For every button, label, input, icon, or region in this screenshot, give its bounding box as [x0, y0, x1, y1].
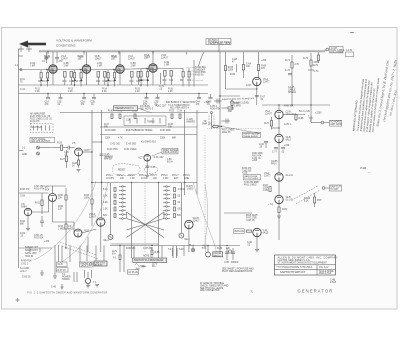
wire right rails	[205, 135, 252, 250]
shielded probe TP	[204, 112, 215, 129]
transformer T2 windings	[168, 246, 184, 258]
svg-text:POS 1: POS 1	[106, 175, 113, 177]
node test point top right	[346, 32, 355, 57]
svg-text:12AU7: 12AU7	[61, 57, 69, 60]
capacitor C49 near caption	[51, 284, 64, 289]
svg-text:R-51 470K: R-51 470K	[34, 188, 45, 190]
svg-text:C1A: C1A	[126, 119, 131, 122]
svg-text:SHIELD: SHIELD	[288, 92, 297, 94]
tube V1-C 12AU7	[111, 52, 136, 74]
ground symbol left	[40, 270, 44, 275]
wire V7 circuit	[19, 186, 53, 222]
coupling pair right of tube at 86.5	[74, 72, 108, 86]
svg-text:12AT7: 12AT7	[263, 80, 270, 83]
tube V11 output	[253, 228, 269, 236]
capacitor C-15	[100, 154, 114, 158]
svg-text:SWITCH S1 FROM REAR: SWITCH S1 FROM REAR	[134, 259, 164, 262]
svg-text:ADJUST: ADJUST	[95, 264, 104, 267]
wire branch right of V3A	[283, 111, 310, 121]
svg-text:TO CRT GRID: TO CRT GRID	[244, 178, 258, 180]
wire dotted interconnect	[208, 125, 263, 134]
resistor R-54	[58, 224, 67, 230]
svg-text:FIG. 1-2 SAWTOOTH SWEEP AND: FIG. 1-2 SAWTOOTH SWEEP AND WAVEFORM GEN…	[28, 291, 108, 294]
wire power entry rails	[112, 245, 124, 272]
label dwg number	[330, 280, 337, 285]
svg-text:12AU7: 12AU7	[265, 112, 273, 115]
capacitor C1 hang left	[42, 52, 49, 63]
label cluster V7 area	[20, 186, 93, 237]
capacitor bank C2A/C2B	[81, 94, 97, 104]
svg-text:1 KC: 1 KC	[130, 178, 135, 180]
resistor R-27	[60, 150, 68, 168]
label generator	[298, 289, 334, 294]
svg-text:8.2K: 8.2K	[304, 200, 309, 202]
capacitor bank C3A/C3B	[143, 94, 160, 104]
svg-text:AC PLUG: AC PLUG	[128, 271, 138, 274]
svg-text:R-61 1 MEG: R-61 1 MEG	[244, 184, 257, 186]
resistor R-76	[264, 117, 279, 130]
resistor R63	[224, 52, 233, 89]
svg-text:330K: 330K	[160, 138, 166, 140]
svg-text:22K: 22K	[58, 208, 63, 210]
tube V8 input cf	[21, 204, 32, 216]
svg-text:see note on margin: see note on margin	[187, 70, 205, 73]
svg-text:68K: 68K	[172, 138, 177, 140]
svg-text:10 CPS: 10 CPS	[106, 178, 114, 180]
svg-text:X1 GANG ADJ: X1 GANG ADJ	[141, 141, 156, 144]
svg-text:POS 3: POS 3	[128, 175, 135, 177]
wire cathode drop	[119, 73, 121, 85]
svg-text:1 MF: 1 MF	[164, 64, 170, 66]
label box test signal	[30, 138, 55, 144]
component cluster power filter	[151, 247, 160, 268]
svg-text:SW S-2: SW S-2	[214, 255, 222, 257]
svg-text:TRANS: TRANS	[62, 278, 70, 281]
resistor pair at V1-A	[39, 70, 50, 87]
svg-text:C-49: C-49	[51, 287, 57, 289]
svg-text:C-66: C-66	[246, 85, 252, 87]
label multivibrator row	[105, 129, 177, 140]
wire top distribution line	[60, 113, 208, 135]
svg-text:1.5K: 1.5K	[103, 209, 108, 211]
note handwritten adjust	[222, 97, 255, 105]
svg-text:C-89 .1: C-89 .1	[284, 124, 292, 126]
wire rails center-left	[82, 110, 102, 226]
svg-text:2.2K: 2.2K	[168, 91, 173, 93]
wire lower-left short bus	[19, 248, 53, 252]
resistor R-73	[303, 58, 319, 73]
neon bulb NE-2	[179, 233, 190, 241]
tube V1-D 12AU7	[144, 52, 169, 73]
svg-text:12AT7: 12AT7	[264, 174, 271, 177]
svg-text:C-74: C-74	[314, 71, 320, 73]
wire left rail	[19, 49, 209, 268]
svg-text:POT: POT	[317, 200, 322, 202]
svg-text:R-83: R-83	[282, 209, 288, 211]
svg-text:MID BAND R.F. SELECTION: MID BAND R.F. SELECTION	[166, 101, 195, 104]
capacitor C-64	[242, 52, 251, 78]
filter caps C-95	[224, 248, 239, 264]
svg-text:C-34: C-34	[177, 111, 183, 113]
tube V2-A sync amp	[246, 77, 270, 87]
pilot lamp	[189, 245, 195, 252]
label box parts table (dashed)	[31, 124, 54, 133]
svg-text:NE-1: NE-1	[104, 240, 110, 242]
capacitor bank C1A/C1B	[45, 94, 63, 104]
tube V4-B 12AT7	[268, 195, 293, 206]
svg-text:R-35 220K: R-35 220K	[105, 130, 116, 132]
node input terminals	[18, 46, 32, 56]
svg-text:2.2K: 2.2K	[135, 91, 140, 93]
capacitor cluster on center rail upper	[204, 99, 233, 114]
label T-1 power	[62, 272, 77, 282]
svg-text:FOLLOWER: FOLLOWER	[331, 52, 344, 54]
svg-text:1K: 1K	[72, 165, 75, 167]
svg-text:1 MFD: 1 MFD	[234, 105, 241, 107]
svg-text:THERMISTOR T-3: THERMISTOR T-3	[115, 108, 135, 110]
svg-text:R-86 68K: R-86 68K	[126, 248, 136, 250]
label density top band	[30, 62, 210, 106]
jack J1 terminal	[19, 146, 51, 156]
svg-text:R-73: R-73	[303, 58, 309, 60]
svg-text:R-69: R-69	[230, 74, 236, 76]
label box thermometer	[114, 105, 168, 113]
coupling pair right of tube at 120	[107, 72, 141, 86]
waveform sketches	[135, 264, 146, 271]
svg-text:NE-2: NE-2	[185, 239, 191, 241]
svg-text:CONDITIONS: CONDITIONS	[56, 44, 75, 48]
svg-text:B-2-A: B-2-A	[167, 160, 173, 163]
svg-text:+225: +225	[242, 173, 248, 175]
svg-text:DWG 170-B: DWG 170-B	[319, 273, 332, 275]
resistor cluster on center rail lower	[202, 119, 235, 134]
svg-text:220K: 220K	[105, 138, 111, 140]
svg-text:← TRIG IN: ← TRIG IN	[22, 256, 33, 258]
svg-text:NOTE 1: NOTE 1	[143, 256, 152, 258]
svg-text:C-42 .001: C-42 .001	[110, 144, 121, 146]
svg-text:1 MF: 1 MF	[64, 65, 70, 67]
svg-text:LINE: LINE	[184, 178, 190, 180]
tube V7 6C4	[45, 187, 64, 202]
wire V5 cathode	[72, 156, 81, 172]
label cluster AC input	[20, 268, 31, 279]
switch S1-A left wafer contacts	[119, 186, 126, 220]
svg-text:1 MEG: 1 MEG	[187, 188, 194, 190]
svg-text:R-86: R-86	[299, 118, 305, 120]
label box switch viewed from rear	[133, 258, 167, 262]
label box freq range selector	[152, 148, 178, 156]
label cluster sync takeoff	[195, 67, 206, 77]
svg-text:POS 5: POS 5	[150, 175, 157, 177]
svg-text:6.3V: 6.3V	[179, 249, 184, 251]
resistor stack left column	[103, 188, 116, 218]
svg-text:C-43 .005: C-43 .005	[126, 144, 137, 146]
svg-text:GENERATOR: GENERATOR	[298, 289, 334, 294]
label cluster c2a5 right	[288, 86, 297, 94]
wire crossover X	[127, 212, 165, 238]
svg-text:15 EB: 15 EB	[360, 168, 367, 170]
label cluster mid right	[252, 153, 263, 162]
tube V9 clamp	[68, 226, 90, 237]
fuse F1	[113, 255, 121, 260]
wire V3 column	[278, 105, 279, 240]
note modified annotation typed	[352, 77, 381, 132]
svg-text:R2 1K: R2 1K	[39, 81, 46, 83]
svg-text:B-1 C 2.2K: B-1 C 2.2K	[299, 111, 311, 113]
wire curve from bus	[199, 52, 205, 66]
label box horiz amp feed	[324, 120, 342, 126]
svg-text:FIG. 6-12: FIG. 6-12	[319, 267, 329, 269]
svg-text:R-16 now 3.3K: R-16 now 3.3K	[187, 74, 202, 76]
wire switch frame	[111, 183, 182, 258]
svg-text:1 MC: 1 MC	[163, 178, 169, 180]
tube V10-B right multivib	[185, 218, 200, 229]
label right column extras	[271, 106, 294, 166]
svg-text:C-95: C-95	[224, 262, 230, 264]
svg-text:12AT7: 12AT7	[84, 149, 91, 152]
svg-text:22K: 22K	[58, 197, 63, 199]
tube V1-B 12AU7	[78, 52, 103, 74]
svg-text:SAWTOOTH SWP CKT: SAWTOOTH SWP CKT	[280, 271, 306, 274]
svg-text:POS 2: POS 2	[117, 175, 124, 177]
label box oscillator caps	[124, 116, 166, 126]
svg-text:S-3 GND: S-3 GND	[20, 268, 30, 270]
wire V11 below	[247, 237, 259, 252]
node +225 feed	[309, 113, 324, 124]
wire switch section top	[91, 182, 197, 183]
label cluster bottom-left rows	[21, 247, 39, 266]
wire top coax bus	[39, 50, 325, 58]
wire V6 below	[145, 161, 156, 178]
phantom dashed bubble right	[144, 166, 157, 173]
phantom dashed bubble left	[113, 164, 140, 176]
svg-text:12AU7: 12AU7	[128, 57, 136, 60]
svg-text:2.2K: 2.2K	[103, 202, 108, 204]
svg-text:33K: 33K	[168, 126, 173, 128]
svg-text:TV OSCILLOSCOPE TYPE 250-A: TV OSCILLOSCOPE TYPE 250-A	[278, 266, 313, 269]
coupling pair right of tube at 153	[140, 71, 174, 86]
svg-text:POS 8: POS 8	[183, 175, 190, 177]
svg-text:1 MEG: 1 MEG	[58, 228, 65, 230]
wire cathode drop	[86, 73, 88, 85]
label sheet mark	[251, 292, 254, 294]
tube V3-B 6AL5	[275, 134, 292, 142]
capacitor bank C4A/C4B	[196, 94, 213, 104]
svg-text:2.2K: 2.2K	[68, 91, 73, 93]
tube V1-A 12AU7	[44, 52, 69, 74]
svg-text:170-B: 170-B	[330, 282, 337, 284]
label switch header rows	[106, 175, 190, 180]
svg-text:+150: +150	[44, 241, 50, 243]
svg-text:C-72: C-72	[285, 70, 291, 72]
capacitor C2 hang left	[55, 52, 63, 63]
svg-text:T-1 A TUNED 455 KC: T-1 A TUNED 455 KC	[168, 104, 190, 107]
label box S1-B	[57, 262, 68, 267]
capacitor C-26	[64, 146, 75, 157]
svg-text:POS 6: POS 6	[161, 175, 168, 177]
annotation arrow (voltage/waveform pointer)	[19, 41, 46, 48]
wire dashed pair to output	[294, 186, 320, 204]
svg-text:47K: 47K	[261, 68, 266, 70]
svg-text:C-59: C-59	[20, 196, 26, 198]
wire V8 below	[20, 216, 30, 231]
svg-text:HMMFD: HMMFD	[187, 121, 196, 123]
svg-text:VOLTAGE & WAVEFORM: VOLTAGE & WAVEFORM	[56, 39, 92, 43]
svg-text:ST. INSTRUMENT DIVISION TEST: ST. INSTRUMENT DIVISION TEST EQUIPMENT	[278, 263, 328, 265]
svg-text:S1-B: S1-B	[58, 264, 64, 266]
svg-text:+ C4: + C4	[268, 204, 274, 206]
resistor hang row on 112 line	[108, 111, 183, 119]
svg-text:GL-2-A: GL-2-A	[286, 174, 294, 177]
wire coax termination	[313, 48, 329, 67]
svg-text:2.2K: 2.2K	[35, 91, 40, 93]
label midband rows	[166, 101, 195, 110]
svg-text:JACK J-4: JACK J-4	[81, 265, 91, 268]
svg-text:C-41 .002: C-41 .002	[154, 157, 165, 159]
label cluster lower-left values	[20, 189, 50, 243]
ground near caption	[95, 285, 99, 287]
svg-text:GND: GND	[22, 154, 27, 156]
svg-text:C-40: C-40	[151, 167, 157, 169]
label box R27	[57, 268, 69, 272]
label AF amplifier	[30, 113, 53, 124]
svg-text:R-51: R-51	[35, 203, 41, 205]
svg-text:ARE CONNECTED: ARE CONNECTED	[200, 289, 220, 292]
svg-text:22K: 22K	[226, 248, 231, 250]
resistor pair at V1-C	[106, 70, 117, 87]
svg-text:RESET: RESET	[118, 170, 126, 172]
label under switch columns	[126, 248, 153, 250]
svg-text:6AB4: 6AB4	[21, 205, 27, 208]
neon bulb NE-1	[104, 235, 113, 242]
wire mid rails right	[185, 110, 197, 195]
svg-text:R-44 470K: R-44 470K	[107, 149, 118, 151]
svg-text:ALLEN B. DU MONT LABS. INC. C: ALLEN B. DU MONT LABS. INC. COMPANY	[278, 255, 339, 259]
svg-text:68K: 68K	[104, 126, 109, 128]
svg-text:FRONT PANEL JACK: FRONT PANEL JACK	[209, 43, 231, 46]
svg-text:600∼: 600∼	[142, 266, 147, 268]
svg-text:AMP GRID: AMP GRID	[330, 123, 341, 126]
svg-text:5.1K: 5.1K	[103, 189, 108, 191]
svg-text:EXT: EXT	[174, 178, 179, 180]
label cluster right of V6	[154, 157, 174, 163]
svg-text:← GATE +50V: ← GATE +50V	[22, 252, 37, 255]
svg-text:SWP CAL: SWP CAL	[202, 123, 213, 126]
svg-text:R-25: R-25	[57, 143, 63, 145]
resistor pair right of V1-D	[180, 60, 194, 87]
svg-text:C-93 .01: C-93 .01	[22, 277, 31, 279]
svg-text:+225: +225	[252, 160, 258, 162]
note pencil faint midtop	[186, 66, 205, 82]
switch S1-B right wafer contacts	[163, 186, 170, 220]
svg-text:OSCILLATOR: OSCILLATOR	[163, 151, 177, 154]
rectifier V12	[202, 246, 210, 257]
wire cathode drop	[152, 72, 154, 85]
svg-text:GL-2-B: GL-2-B	[286, 199, 294, 201]
svg-text:220K: 220K	[228, 69, 234, 71]
svg-text:POS 4: POS 4	[139, 175, 146, 177]
wire bottom-left drops	[55, 242, 98, 274]
svg-text:12AU7: 12AU7	[95, 57, 103, 60]
label box rect dark	[213, 252, 223, 258]
svg-text:C-12: C-12	[20, 89, 26, 91]
component cluster right of sync amp	[231, 99, 241, 110]
wire long curve linkage right	[193, 182, 217, 255]
svg-text:R-76: R-76	[264, 123, 270, 125]
wire cathode drop	[52, 73, 54, 85]
label faint marks right	[360, 168, 371, 173]
svg-text:.1 MFD: .1 MFD	[177, 189, 185, 191]
svg-text:R-24 47K: R-24 47K	[30, 121, 40, 123]
resistor R-65	[257, 52, 266, 78]
svg-text:.002: .002	[177, 209, 182, 211]
capacitor cluster right-mid	[259, 142, 268, 149]
svg-text:R-90 470K: R-90 470K	[21, 261, 32, 263]
svg-text:R-88 10K: R-88 10K	[284, 106, 294, 108]
svg-text:4.7K: 4.7K	[118, 138, 123, 140]
svg-text:+225V: +225V	[315, 113, 322, 115]
svg-text:WAFER: WAFER	[104, 157, 112, 160]
label box AC interlock	[128, 270, 139, 274]
svg-text:+150: +150	[284, 145, 290, 147]
label box grid bias	[234, 229, 252, 234]
label box phone jack	[80, 262, 94, 268]
wire long curve linkage left	[34, 181, 108, 263]
note handwritten script	[375, 59, 399, 128]
note trouble check	[200, 282, 229, 292]
svg-text:40MFD: 40MFD	[231, 262, 239, 264]
svg-text:12AU7: 12AU7	[193, 219, 201, 222]
svg-text:+150: +150	[261, 60, 267, 62]
label x1 gang	[141, 141, 156, 144]
label under gate box	[244, 182, 260, 186]
svg-text:C-85: C-85	[263, 190, 269, 192]
svg-text:3.3K: 3.3K	[103, 196, 108, 198]
node sync junction	[219, 88, 258, 96]
svg-text:POS 7: POS 7	[172, 175, 179, 177]
note fuse replacement	[222, 268, 254, 274]
wire right hv feed	[262, 53, 330, 122]
wire extra crossovers	[127, 219, 165, 231]
svg-text:J-3 IN: J-3 IN	[346, 50, 352, 52]
svg-text:4.7K: 4.7K	[295, 64, 300, 66]
svg-text:ADJ. PER NOTE 4: ADJ. PER NOTE 4	[170, 107, 190, 110]
resistor pair at V1-B	[72, 70, 83, 87]
svg-text:C-98 .05: C-98 .05	[246, 220, 255, 222]
svg-text:6AQ5: 6AQ5	[263, 231, 270, 234]
label v4 grid cluster	[263, 185, 271, 192]
resistor R-100	[304, 193, 322, 207]
svg-text:R-30: R-30	[108, 111, 114, 113]
label box sweep magnifier	[243, 132, 261, 138]
svg-text:PHASE INVERT: PHASE INVERT	[243, 135, 259, 138]
tube V5 12AT7 af amp	[72, 143, 91, 156]
node plus mark corner	[16, 298, 20, 302]
resistor R-71	[285, 60, 300, 75]
label box cable follower	[330, 46, 345, 54]
svg-text:R-75: R-75	[313, 65, 319, 67]
resistor pair at V1-D	[139, 69, 150, 87]
svg-text:R-27 1K: R-27 1K	[58, 270, 67, 272]
tube V6 oscillator	[139, 154, 151, 161]
svg-text:PILOT REPLACEMENT DATA: PILOT REPLACEMENT DATA	[222, 270, 253, 273]
svg-text:MAG X5: MAG X5	[222, 131, 231, 134]
svg-text:BIAS ADJ: BIAS ADJ	[235, 230, 245, 233]
svg-text:ADJ NOTE 3: ADJ NOTE 3	[140, 107, 154, 110]
svg-text:R-45 1 MEG: R-45 1 MEG	[124, 149, 137, 151]
svg-text:R-27: R-27	[60, 159, 66, 161]
label box: coax feed	[206, 38, 232, 45]
